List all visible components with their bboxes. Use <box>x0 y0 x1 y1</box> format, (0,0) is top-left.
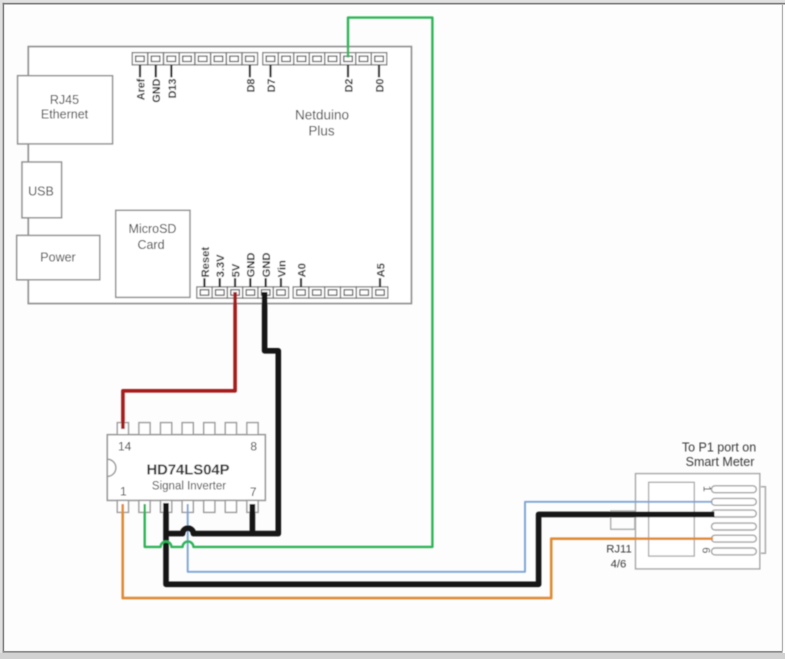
svg-text:A5: A5 <box>375 263 387 277</box>
svg-text:GND: GND <box>246 253 258 278</box>
pin label GND <box>151 65 163 103</box>
wire orange: chip pin 1 to RJ11 pin 5 <box>123 504 713 598</box>
svg-text:D0: D0 <box>374 79 386 93</box>
svg-text:D8: D8 <box>245 79 257 93</box>
label Netduino Plus <box>295 108 349 139</box>
wire blue: chip pin 4 to RJ11 pin 2 <box>188 502 713 572</box>
RJ11 contacts 1-6 <box>712 486 757 555</box>
svg-text:RJ11: RJ11 <box>606 544 632 556</box>
svg-text:3.3V: 3.3V <box>215 254 227 278</box>
svg-text:Plus: Plus <box>308 124 335 139</box>
pin label A5 <box>375 263 387 287</box>
pin label D8 <box>245 65 257 93</box>
RJ11 right bracket <box>761 487 766 554</box>
svg-text:Netduino: Netduino <box>295 108 349 123</box>
header digital pins D7-D0 <box>263 53 387 65</box>
svg-text:6: 6 <box>700 547 712 553</box>
pin label A0 <box>296 263 308 287</box>
wire black: chip pin 7 stub to GND rail <box>250 504 256 534</box>
svg-text:A0: A0 <box>296 263 308 277</box>
wire green: Netduino D2 to chip pin 2 <box>145 18 433 547</box>
svg-text:To P1 port on: To P1 port on <box>682 441 756 455</box>
svg-text:Ethernet: Ethernet <box>41 108 89 122</box>
pin label D7 <box>266 65 278 93</box>
svg-text:USB: USB <box>28 185 54 199</box>
pin label GND <box>246 253 258 287</box>
chip U1 bottom pins 1-7 <box>117 500 258 512</box>
svg-text:5V: 5V <box>230 263 242 277</box>
svg-text:RJ45: RJ45 <box>50 93 79 107</box>
svg-text:D7: D7 <box>266 79 278 93</box>
svg-text:Aref: Aref <box>135 78 147 100</box>
RJ11 connector body <box>636 474 760 569</box>
wire black: Netduino GND to chip GND rail <box>166 292 278 534</box>
svg-text:GND: GND <box>151 78 163 102</box>
RJ11 cable clip <box>611 511 635 529</box>
svg-text:7: 7 <box>250 485 257 499</box>
svg-text:MicroSD: MicroSD <box>129 222 177 236</box>
svg-text:GND: GND <box>261 253 273 278</box>
wire black: chip pin 3 to RJ11 pin 3 <box>166 503 715 584</box>
Netduino Plus board outline <box>28 47 411 304</box>
svg-text:Signal Inverter: Signal Inverter <box>152 480 226 492</box>
svg-text:Card: Card <box>137 238 164 252</box>
pin label GND <box>261 253 273 287</box>
RJ11 inner body <box>649 482 695 556</box>
svg-text:1: 1 <box>120 485 127 499</box>
svg-text:Vin: Vin <box>276 260 288 277</box>
label RJ11 4/6 <box>606 544 632 571</box>
svg-text:4/6: 4/6 <box>611 559 627 571</box>
RJ45 Ethernet module <box>18 76 113 144</box>
svg-text:8: 8 <box>250 440 257 454</box>
op-amp/inverter chip U1 HD74LS04P body <box>107 435 265 501</box>
svg-text:14: 14 <box>118 440 132 454</box>
header power pins Reset-Vin <box>197 287 289 298</box>
header analog pins A0-A5 <box>293 287 388 298</box>
pin label D13 <box>167 65 179 99</box>
pin label Vin <box>276 260 288 287</box>
pin label Reset <box>200 247 212 287</box>
svg-text:Reset: Reset <box>200 247 212 278</box>
pin label D2 <box>343 65 355 93</box>
svg-text:1: 1 <box>701 486 713 492</box>
pin label 5V <box>230 263 242 287</box>
header digital pins Aref-D8 <box>132 53 257 65</box>
svg-text:Smart Meter: Smart Meter <box>686 455 755 469</box>
svg-text:Power: Power <box>40 251 75 265</box>
label To P1 port on Smart Meter <box>682 441 756 469</box>
MicroSD card slot <box>116 210 190 297</box>
svg-text:HD74LS04P: HD74LS04P <box>146 463 229 479</box>
chip U1 top pins 14-8 <box>117 423 258 435</box>
USB port <box>22 162 62 218</box>
svg-text:D2: D2 <box>343 79 355 93</box>
Power jack <box>17 235 100 279</box>
svg-text:D13: D13 <box>167 79 179 99</box>
pin label D0 <box>374 65 386 93</box>
pin label 3.3V <box>215 254 227 287</box>
wire red: Netduino 5V to chip pin 14 <box>123 292 235 429</box>
pin label Aref <box>135 65 147 100</box>
